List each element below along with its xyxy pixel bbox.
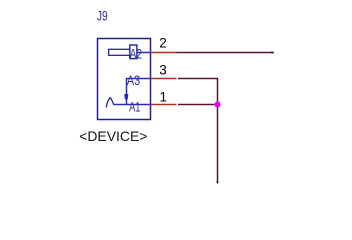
net end tip pin 2 (271, 52, 274, 54)
svg-text:3: 3 (159, 62, 167, 77)
terminal body (vertical rectangle of pin A2 symbol) (130, 45, 137, 59)
coil bar (horizontal rectangle of pin A2 symbol) (109, 49, 131, 55)
connector J9 outline box (98, 39, 151, 120)
wire stub pin 2 (red) (151, 52, 177, 54)
net wire pin 2 (dark) (177, 52, 274, 54)
svg-text:A2: A2 (130, 45, 142, 61)
svg-text:1: 1 (160, 89, 168, 104)
svg-text:A1: A1 (129, 98, 141, 114)
svg-text:<DEVICE>: <DEVICE> (79, 128, 147, 144)
arrowhead on A3-A1 link (124, 94, 128, 99)
net wire pin 1 (dark) (178, 104, 218, 106)
switch actuator squiggle (106, 98, 113, 107)
net wire pin 3 (dark, right then down) (178, 79, 218, 105)
wire stub pin 3 (red) (151, 78, 177, 80)
wire: internal lead from A2 symbol to box edge (137, 52, 151, 54)
net wire down from junction (217, 105, 219, 184)
wire: internal lead A1 to box edge (114, 104, 151, 106)
junction node (215, 102, 221, 108)
svg-text:A3: A3 (127, 72, 140, 88)
svg-text:2: 2 (159, 36, 167, 51)
wire: internal lead A3, right edge to corner then down (127, 79, 152, 105)
wire stub pin 1 (red) (151, 104, 177, 106)
svg-text:J9: J9 (97, 8, 108, 23)
net end tip bottom (217, 181, 219, 184)
